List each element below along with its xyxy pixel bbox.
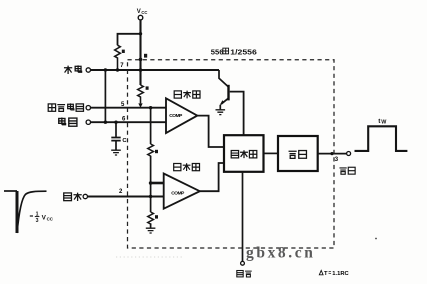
Vcc terminal (138, 15, 143, 20)
wire output block to terminal (318, 153, 347, 155)
svg-text:COMP: COMP (171, 190, 185, 196)
wire C to ground (115, 141, 117, 150)
output terminal (347, 152, 351, 156)
复位 reset label (237, 271, 252, 277)
node discharge/divider (139, 68, 143, 72)
node control/divider-down (149, 106, 152, 109)
node threshold/C (114, 121, 117, 124)
node Vcc branch (139, 32, 142, 35)
resistor R1 internal (138, 85, 144, 103)
放电 discharge label (64, 65, 82, 74)
wire R3 to ground (150, 223, 152, 227)
node discharge/Rext (116, 68, 119, 71)
wire comp2 plus input (151, 182, 164, 185)
discharge terminal (86, 68, 90, 72)
threshold terminal (86, 120, 90, 124)
wire trigger line (88, 195, 164, 197)
比较器 comparator 1 label (174, 91, 200, 99)
svg-text:V: V (137, 9, 141, 15)
node threshold/tie (104, 121, 107, 124)
flip-flop block 触发器 (224, 135, 264, 172)
node divider/control (arrow) (138, 103, 142, 107)
wire discharge line (91, 69, 220, 71)
wire C branch (115, 122, 117, 137)
svg-text:CC: CC (141, 10, 147, 15)
wire Vcc branch to external R (118, 34, 141, 45)
触发器 text (231, 150, 257, 158)
node output/box-edge (330, 152, 333, 155)
阈值 threshold label (59, 117, 77, 126)
trigger input waveform (4, 190, 17, 192)
svg-text:3: 3 (36, 218, 39, 224)
wire divider mid vertical (150, 108, 152, 144)
resistor R external (115, 45, 121, 70)
trigger waveform label -1/3 Vcc (30, 212, 54, 225)
ground below Q1 (216, 110, 226, 115)
svg-text:gbx8.cn: gbx8.cn (246, 245, 315, 262)
ground below C (111, 150, 121, 155)
wire comparator 1 output (197, 116, 224, 147)
svg-text:556: 556 (211, 48, 224, 57)
transistor Q1 discharge: collector bend (219, 70, 228, 87)
node pin 8 on box edge (139, 58, 143, 62)
svg-text:T: T (324, 271, 328, 277)
wire threshold line (91, 121, 167, 123)
resistor R label (122, 50, 125, 53)
node divider/comp2 (149, 181, 153, 185)
transistor Q1 emitter arrow (220, 100, 225, 105)
op-amp comparator 2 (164, 174, 200, 209)
node discharge/tie (104, 68, 107, 71)
reset terminal (241, 261, 245, 265)
trigger terminal (83, 194, 87, 198)
resistor R1 label (146, 86, 149, 89)
比较器 comparator 2 label (174, 163, 200, 171)
capacitor C (111, 138, 120, 141)
transistor Q1 base bar (227, 85, 229, 101)
控制电压 control voltage label (48, 103, 83, 111)
wire Vcc vertical (139, 20, 141, 85)
svg-text:CC: CC (47, 216, 54, 221)
触发 trigger label (64, 193, 82, 201)
transistor Q1 emitter (221, 99, 228, 105)
pin 8 label (144, 54, 147, 58)
scan speck (375, 238, 377, 240)
wire reset vertical (242, 172, 244, 262)
输出 text in block (289, 151, 307, 159)
wire discharge-threshold tie (104, 70, 106, 122)
resistor R3 internal (148, 212, 154, 224)
transistor Q1 base wire to flip-flop (230, 92, 244, 136)
ground below divider (146, 228, 156, 233)
pulse width label tw (378, 118, 387, 125)
op-amp comparator 1 (166, 98, 197, 133)
svg-text:1/2556: 1/2556 (230, 48, 256, 57)
formula T=1.1RC (319, 270, 349, 277)
wire control voltage line (91, 107, 167, 109)
wire flip-flop to output block (264, 152, 279, 154)
output pulse waveform (355, 126, 408, 151)
wire R2 to node2 (150, 156, 152, 212)
svg-text:COMP: COMP (169, 113, 183, 119)
wire emitter to ground (219, 105, 221, 110)
control voltage terminal (86, 106, 90, 110)
title 556或1/2556 (211, 48, 257, 57)
output block 输出 (278, 136, 318, 171)
svg-text:1.1RC: 1.1RC (332, 271, 349, 277)
resistor R3 label (155, 215, 158, 218)
wire comparator 2 output (200, 163, 224, 191)
node trigger crossing (149, 195, 152, 198)
dashed IC boundary box 556/2556 (128, 60, 335, 248)
输出 output label (339, 167, 355, 174)
resistor R2 label (155, 150, 158, 153)
Vcc label (137, 9, 148, 15)
resistor R2 internal (148, 144, 154, 156)
scan dotted artifact (116, 256, 184, 258)
